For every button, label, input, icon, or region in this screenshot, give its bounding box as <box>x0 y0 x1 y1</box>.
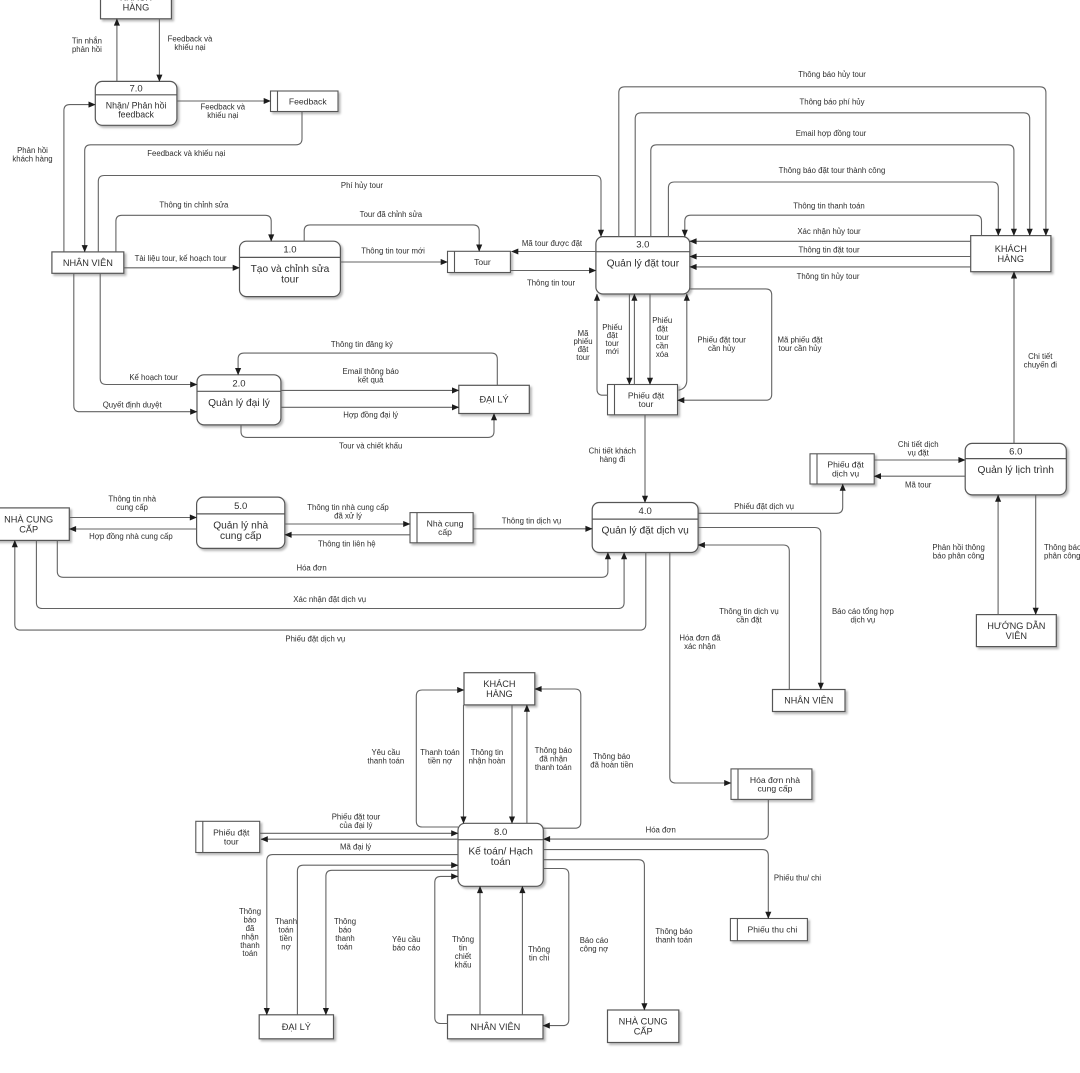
svg-text:Thông báo phí hủy: Thông báo phí hủy <box>799 98 864 107</box>
svg-text:Yêu cầuthanh toán: Yêu cầuthanh toán <box>367 748 404 766</box>
wire Tin nhan phan hoi 7.0->KHACH HANG <box>116 19 118 82</box>
svg-text:Thông tin liên hệ: Thông tin liên hệ <box>318 540 376 549</box>
svg-text:KHÁCHHÀNG: KHÁCHHÀNG <box>483 679 515 699</box>
wire Chi tiet chuyen di 6.0->KHACH HANG <box>1013 272 1015 444</box>
wire Thong bao da hoan tien 8.0->KHACH HANG <box>535 689 581 828</box>
wire Thong bao thanh toan 8.0->NCC <box>543 860 644 1010</box>
data store Tour <box>448 251 511 272</box>
svg-text:Thôngtin chi: Thôngtin chi <box>528 945 550 963</box>
svg-text:NHÂN VIÊN: NHÂN VIÊN <box>784 696 833 706</box>
wire Phieu dat tour store->3.0 <box>633 294 635 385</box>
wire Phan hoi khach hang NHAN VIEN->7.0 <box>64 105 95 252</box>
wire Ma dai ly 8.0->store <box>261 838 458 840</box>
process 7.0 Nhan/Phan hoi feedback <box>95 81 177 125</box>
wire Thong tin thanh toan KHACH HANG->3.0 <box>685 215 982 236</box>
svg-text:Tour: Tour <box>474 257 491 267</box>
wire Ma phieu dat tour store->3.0 <box>597 294 608 395</box>
external entity DAI LY bottom <box>259 1015 333 1039</box>
wire Thong tin nha cung cap da xu ly 5.0->store <box>285 523 410 525</box>
svg-text:Phiếu thu chi: Phiếu thu chi <box>748 925 798 935</box>
svg-text:Tài liệu tour, kế hoạch tour: Tài liệu tour, kế hoạch tour <box>135 254 227 263</box>
wire Hoa don store->8.0 <box>543 799 768 839</box>
process 2.0 Quan ly dai ly <box>197 375 281 425</box>
wire Thong tin lien he store->5.0 <box>285 534 410 536</box>
wire Phieu dat dich vu 4.0->store <box>698 484 843 513</box>
wire Feedback va khieu nai KHACH HANG->7.0 <box>158 19 160 82</box>
svg-text:Email hợp đồng tour: Email hợp đồng tour <box>796 129 867 138</box>
wire Thong tin chiet khau NHAN VIEN->8.0 <box>479 886 481 1015</box>
process 5.0 Quan ly nha cung cap <box>197 497 285 548</box>
svg-text:Hợp đồng nhà cung cấp: Hợp đồng nhà cung cấp <box>89 532 173 541</box>
wire Email hop dong tour 3.0->KHACH HANG <box>651 145 1014 237</box>
svg-text:Tin nhắnphản hồi: Tin nhắnphản hồi <box>72 36 102 54</box>
wire Phan hoi thong bao phan cong HDV->6.0 <box>997 495 999 615</box>
svg-text:Quyết định duyệt: Quyết định duyệt <box>103 400 163 409</box>
svg-text:Mã tour được đặt: Mã tour được đặt <box>522 239 583 248</box>
svg-text:Thông báothanh toán: Thông báothanh toán <box>655 927 693 945</box>
wire Xac nhan huy tour KHACH HANG->3.0 <box>690 240 971 242</box>
external entity NHA CUNG CAP bottom <box>608 1010 679 1043</box>
wire Thong bao da nhan thanh toan 8.0->KHACH HANG <box>526 705 528 823</box>
process 3.0 Quan ly dat tour <box>596 237 690 294</box>
wire Thanh toan tien no KHACH HANG->8.0 <box>463 705 465 823</box>
wire Tai lieu tour, ke hoach tour NHAN VIEN->1.0 <box>124 267 240 269</box>
svg-text:Chi tiếtchuyến đi: Chi tiếtchuyến đi <box>1024 352 1058 370</box>
external entity DAI LY middle <box>459 385 530 413</box>
svg-text:Phản hồikhách hàng: Phản hồikhách hàng <box>12 146 52 164</box>
svg-text:Mã tour: Mã tour <box>905 480 932 489</box>
wire Yeu cau thanh toan 8.0->KHACH HANG <box>416 690 464 827</box>
process 4.0 Quan ly dat dich vu <box>592 503 698 553</box>
wire Phieu dat dich vu 4.0->NCC <box>15 540 646 630</box>
wire Thong tin huy tour KHACH HANG->3.0 <box>690 266 971 268</box>
wire Phieu dat tour can huy store->3.0 <box>679 294 687 390</box>
external entity NHAN VIEN bottom <box>448 1015 544 1039</box>
svg-text:Thông tin đăng ký: Thông tin đăng ký <box>331 340 393 349</box>
external entity KHACH HANG right <box>971 236 1051 272</box>
wire Ma phieu dat tour can huy 3.0->store <box>678 289 772 400</box>
svg-text:Phiếu đặtdịch vụ: Phiếu đặtdịch vụ <box>827 460 864 479</box>
process 8.0 Ke toan/Hach toan <box>458 823 543 886</box>
svg-text:Hợp đồng đại lý: Hợp đồng đại lý <box>343 411 398 420</box>
svg-text:Phiếu đặt dịch vụ: Phiếu đặt dịch vụ <box>734 502 794 511</box>
wire Thong bao da nhan thanh toan 8.0->DAI LY <box>267 855 458 1015</box>
external entity NHAN VIEN left <box>52 252 124 273</box>
wire Thong tin tour Tour->3.0 <box>510 270 596 272</box>
svg-text:Thông báođã nhậnthanh toán: Thông báođã nhậnthanh toán <box>535 746 573 772</box>
wire Phi huy tour NHAN VIEN->3.0 <box>98 176 601 252</box>
wire Thong tin dich vu can dat NHAN VIEN->4.0 <box>698 545 789 690</box>
svg-text:Thông tinnhận hoàn: Thông tinnhận hoàn <box>469 748 506 766</box>
svg-text:Phiếu đặt dịch vụ: Phiếu đặt dịch vụ <box>285 635 345 644</box>
svg-text:Kế hoạch tour: Kế hoạch tour <box>129 373 178 382</box>
data store Phieu dat tour bottom <box>196 821 260 852</box>
wire Ma tour 6.0->store <box>874 475 965 477</box>
wire Email thong bao ket qua 2.0->DAI LY <box>281 389 459 391</box>
wire Phieu dat tour can xoa 3.0->store <box>649 294 651 385</box>
svg-text:Phí hủy tour: Phí hủy tour <box>341 181 383 190</box>
svg-text:Thông báođã hoàn tiền: Thông báođã hoàn tiền <box>590 752 633 770</box>
wire Thong tin nhan hoan KHACH HANG->8.0 <box>511 705 513 823</box>
svg-text:7.0: 7.0 <box>129 83 142 94</box>
wire Feedback va khieu nai Feedback->NHAN VIEN <box>85 112 302 252</box>
wire Hoa don da xac nhan 4.0->store <box>670 553 731 784</box>
wire Chi tiet khach hang di store->4.0 <box>644 415 646 503</box>
svg-text:Thông báophân công: Thông báophân công <box>1044 543 1080 561</box>
svg-text:4.0: 4.0 <box>639 506 652 517</box>
wire Chi tiet dich vu dat store->6.0 <box>874 459 965 461</box>
svg-text:Hóa đơn: Hóa đơn <box>646 826 676 835</box>
svg-text:Thông tin đặt tour: Thông tin đặt tour <box>798 246 860 255</box>
svg-text:Quản lý đặt tour: Quản lý đặt tour <box>607 258 680 269</box>
svg-text:Quản lý đặt dịch vụ: Quản lý đặt dịch vụ <box>602 526 689 537</box>
wire Thong tin dat tour KHACH HANG->3.0 <box>690 256 971 258</box>
external entity KHACH HANG top <box>101 0 172 19</box>
svg-text:ĐẠI LÝ: ĐẠI LÝ <box>282 1022 311 1032</box>
data store Phieu dat dich vu <box>810 454 874 484</box>
wire Feedback va khieu nai 7.0->Feedback store <box>177 100 271 102</box>
data store Phieu thu chi <box>730 919 807 941</box>
svg-text:Feedback: Feedback <box>289 96 327 106</box>
process 1.0 Tao va chinh sua tour <box>240 241 341 296</box>
svg-text:Thôngtinchiếtkhấu: Thôngtinchiếtkhấu <box>452 935 474 969</box>
svg-text:Thông tin tour: Thông tin tour <box>527 278 576 287</box>
wire Thong tin chinh sua NHAN VIEN->1.0 <box>116 215 271 252</box>
svg-text:5.0: 5.0 <box>234 501 247 512</box>
svg-text:Quản lý lịch trình: Quản lý lịch trình <box>978 465 1054 476</box>
data store Hoa don nha cung cap <box>731 769 812 800</box>
svg-text:Mã đại lý: Mã đại lý <box>340 843 371 852</box>
svg-text:Thông báo đặt tour thành công: Thông báo đặt tour thành công <box>779 166 886 175</box>
svg-text:Quản lý đại lý: Quản lý đại lý <box>208 398 271 409</box>
svg-text:Mã phiếu đặttour cần hủy: Mã phiếu đặttour cần hủy <box>777 336 823 354</box>
process 6.0 Quan ly lich trinh <box>965 443 1066 495</box>
wire Hop dong dai ly 2.0->DAI LY <box>281 406 459 408</box>
svg-text:Thông báo hủy tour: Thông báo hủy tour <box>798 70 866 79</box>
svg-text:ĐẠI LÝ: ĐẠI LÝ <box>479 395 508 405</box>
svg-text:NHÂN VIÊN: NHÂN VIÊN <box>63 258 113 268</box>
wire Xac nhan dat dich vu NCC->4.0 <box>36 540 624 608</box>
wire Thong bao dat tour thanh cong 3.0->KHACH HANG <box>668 182 998 237</box>
wire Thong tin dich vu store->4.0 <box>473 528 592 530</box>
external entity KHACH HANG bottom <box>464 673 535 705</box>
svg-text:Xác nhận hủy tour: Xác nhận hủy tour <box>797 227 861 236</box>
svg-text:Thông tin dịch vụ: Thông tin dịch vụ <box>502 517 561 526</box>
wire Bao cao cong no 8.0->NHAN VIEN <box>543 869 569 1026</box>
svg-text:Xác nhận đặt dịch vụ: Xác nhận đặt dịch vụ <box>293 595 366 604</box>
svg-text:Thông tin thanh toán: Thông tin thanh toán <box>793 201 865 210</box>
external entity NHAN VIEN middle-right <box>773 690 846 712</box>
wire Hoa don NCC->4.0 <box>57 540 608 577</box>
svg-text:Yêu cầubáo cáo: Yêu cầubáo cáo <box>392 935 421 953</box>
svg-text:Báo cáocông nợ: Báo cáocông nợ <box>580 936 609 954</box>
wire Thong tin nha cung cap NCC->5.0 <box>69 517 196 519</box>
svg-text:3.0: 3.0 <box>636 240 649 251</box>
svg-text:Feedback và khiếu nại: Feedback và khiếu nại <box>147 149 225 158</box>
data store Phieu dat tour <box>608 385 678 415</box>
svg-text:Tour và chiết khấu: Tour và chiết khấu <box>339 441 402 450</box>
external entity NHA CUNG CAP left <box>0 508 69 541</box>
svg-text:Phản hồi thôngbáo phân công: Phản hồi thôngbáo phân công <box>932 543 984 561</box>
svg-text:Thông tin chỉnh sửa: Thông tin chỉnh sửa <box>159 201 229 210</box>
wire Thong tin tour moi 1.0->Tour <box>340 261 447 263</box>
svg-text:NHÂN VIÊN: NHÂN VIÊN <box>470 1022 520 1032</box>
svg-text:1.0: 1.0 <box>283 245 296 256</box>
wire Ma tour duoc dat 3.0->Tour <box>512 251 596 253</box>
wire Thong tin chi NHAN VIEN->8.0 <box>521 886 523 1015</box>
svg-text:8.0: 8.0 <box>494 827 507 838</box>
wire Ke hoach tour NHAN VIEN->2.0 <box>100 273 197 384</box>
wire Thanh toan tien no DAI LY->8.0 <box>297 865 458 1015</box>
wire Phieu thu chi 8.0->store <box>543 850 768 919</box>
wire Thong bao phan cong 6.0->HDV <box>1035 495 1037 615</box>
svg-text:KHÁCHHÀNG: KHÁCHHÀNG <box>120 0 152 13</box>
svg-text:2.0: 2.0 <box>232 378 245 389</box>
wire Quyet dinh duyet NHAN VIEN->2.0 <box>74 273 197 411</box>
wire Phieu dat tour cua dai ly store->8.0 <box>260 832 458 834</box>
svg-text:6.0: 6.0 <box>1009 446 1022 457</box>
svg-text:Phiếu thu/ chi: Phiếu thu/ chi <box>774 874 822 883</box>
svg-text:Tour đã chỉnh sửa: Tour đã chỉnh sửa <box>360 210 423 219</box>
wire Tour va chiet khau 2.0->DAI LY <box>241 414 494 438</box>
svg-text:Thông tin hủy tour: Thông tin hủy tour <box>797 272 860 281</box>
wire Bao cao tong hop dich vu 4.0->NHAN VIEN <box>698 528 821 690</box>
svg-text:Hóa đơn đãxác nhận: Hóa đơn đãxác nhận <box>679 633 721 651</box>
data store Nha cung cap <box>410 513 473 543</box>
data store Feedback <box>271 91 339 112</box>
wire Thong bao thanh toan 8.0->DAI LY <box>326 870 458 1015</box>
wire Thong bao phi huy 3.0->KHACH HANG <box>635 113 1029 237</box>
wire Thong bao huy tour 3.0->KHACH HANG <box>619 87 1046 237</box>
external entity HUONG DAN VIEN <box>976 615 1056 647</box>
svg-text:Quản lý nhàcung cấp: Quản lý nhàcung cấp <box>213 521 268 543</box>
wire Hop dong nha cung cap 5.0->NCC <box>69 528 196 530</box>
svg-text:KHÁCHHÀNG: KHÁCHHÀNG <box>995 244 1027 264</box>
svg-text:Thông tin tour mới: Thông tin tour mới <box>361 246 425 255</box>
wire Thong tin dang ky DAI LY->2.0 <box>238 353 497 385</box>
wire Tour da chinh sua 1.0->Tour <box>304 225 479 251</box>
wire Phieu dat tour moi 3.0->store <box>628 294 630 385</box>
svg-text:Hóa đơn: Hóa đơn <box>296 563 326 572</box>
wire Yeu cau bao cao NHAN VIEN->8.0 <box>435 876 458 1023</box>
